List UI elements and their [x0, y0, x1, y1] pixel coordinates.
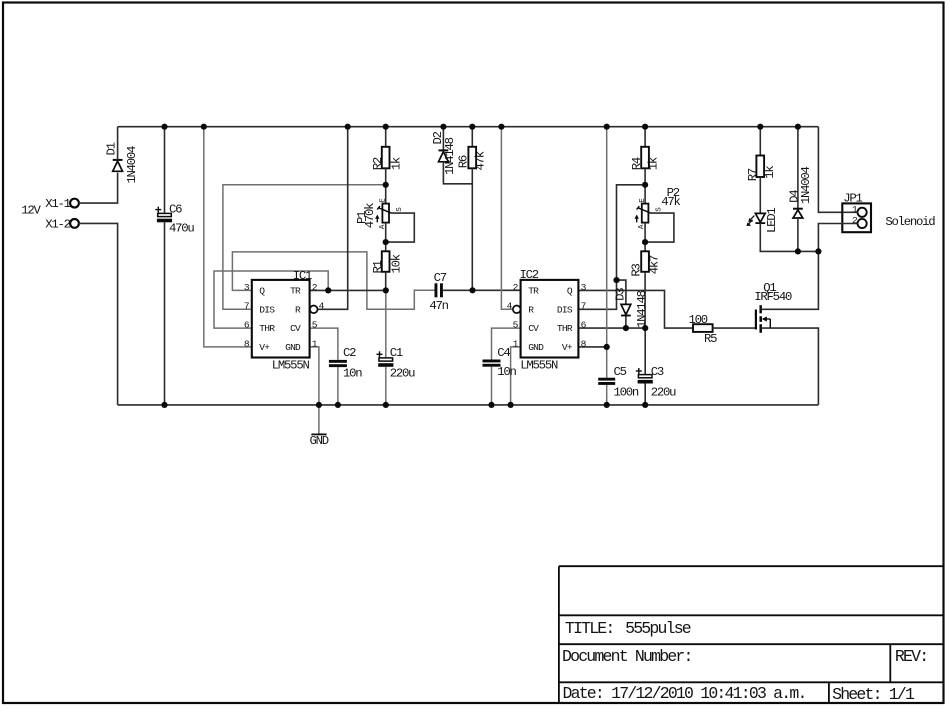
wire IC2 V+ pin8 stub [578, 346, 606, 348]
junction JP1-2/drain node [815, 248, 821, 254]
wire X1-2 to GND rail [79, 223, 118, 405]
junction bottom rail x=319 [316, 402, 322, 408]
diode D1 1N4004 [113, 159, 123, 161]
svg-text:Date: 17/12/2010 10:41:03 a.m.: Date: 17/12/2010 10:41:03 a.m. [563, 684, 806, 703]
wire R6 to TR2 node [471, 168, 473, 290]
junction THR loop/TR [325, 287, 331, 293]
wire IC1 TR pin2 to R1/C1 node [310, 289, 386, 291]
resistor R3 4k7 body [641, 251, 649, 271]
wire Q1 drain to solenoid node [761, 251, 819, 309]
junction D4/drain node [795, 248, 801, 254]
svg-text:R4: R4 [630, 157, 644, 170]
capacitor C1 220u plates [379, 358, 393, 361]
svg-text:V+: V+ [562, 342, 573, 353]
junction P1 wiper [383, 239, 389, 245]
svg-text:470u: 470u [169, 221, 194, 235]
svg-text:47k: 47k [661, 195, 680, 209]
svg-text:IC1: IC1 [293, 269, 312, 283]
wire C5 to GND rail [606, 385, 608, 405]
wire IC2 THR pin6 to R3/C3 node [578, 327, 645, 329]
svg-text:1k: 1k [389, 157, 403, 170]
IC1 pin 4 inversion bubble [310, 306, 318, 314]
op-amp/timer IC2 LM555N box [521, 280, 579, 358]
wire GND stub [318, 405, 320, 434]
junction bottom rail x=645 [642, 402, 648, 408]
wire JP1 pin 2 to drain node [818, 224, 857, 252]
svg-text:R2: R2 [371, 157, 385, 170]
wire IC1 THR pin6 loop to TR [214, 271, 328, 328]
junction top rail x=443 [440, 124, 446, 130]
Q1 source dash [759, 324, 762, 333]
JP1 pin 2 circle [858, 219, 867, 228]
capacitor C6 470u plates [158, 213, 172, 216]
wire P2 wiper loop [645, 213, 674, 242]
svg-text:Sheet: 1/1: Sheet: 1/1 [832, 685, 915, 704]
svg-text:Document Number:: Document Number: [562, 647, 692, 666]
capacitor C5 100n plates [598, 378, 615, 381]
junction bottom rail x=511 [508, 402, 514, 408]
wire V+ rail to IC1 pin 8 [204, 127, 252, 347]
svg-text:C5: C5 [614, 365, 627, 379]
wire rail to JP1 pin 1 [818, 127, 857, 213]
wire R3 to THR node [644, 272, 646, 328]
wire C2 to GND rail [337, 367, 339, 405]
wire Q1 source to GND rail [761, 328, 819, 405]
junction top rail x=472 [469, 124, 475, 130]
junction top rail x=760 [757, 124, 763, 130]
svg-text:1N4004: 1N4004 [799, 166, 813, 204]
svg-text:C7: C7 [434, 271, 447, 285]
svg-text:TITLE:: TITLE: [565, 619, 614, 638]
svg-text:THR: THR [259, 323, 275, 334]
wire rail to D2 [442, 127, 444, 151]
wire R1 to TR node [385, 272, 387, 291]
junction top rail x=386 [383, 124, 389, 130]
svg-text:Solenoid: Solenoid [885, 215, 935, 229]
diode D3 1N4148 [621, 304, 631, 314]
capacitor C7 plates [435, 283, 438, 297]
diode LED1 [755, 213, 765, 222]
junction top rail x=204 [201, 124, 207, 130]
svg-text:LM555N: LM555N [272, 358, 310, 372]
svg-text:100: 100 [689, 313, 708, 327]
op-amp/timer IC1 LM555N box [252, 280, 310, 358]
svg-text:R6: R6 [457, 155, 471, 168]
wire bottom GND rail [118, 404, 819, 406]
svg-text:1k: 1k [763, 166, 777, 179]
capacitor C2 10n plates [329, 360, 347, 363]
svg-text:C1: C1 [390, 346, 403, 360]
connector JP1 box [842, 203, 871, 232]
svg-text:47k: 47k [474, 151, 488, 170]
diode D2 1N4148 [439, 149, 449, 151]
wire IC2 CV pin5 to C4 [492, 328, 521, 359]
svg-text:CV: CV [290, 323, 301, 334]
svg-text:10k: 10k [389, 254, 403, 273]
junction D3/THR2 [623, 325, 629, 331]
wire rail to R4 [644, 127, 646, 147]
junction bottom rail x=492 [488, 402, 494, 408]
svg-text:C2: C2 [343, 346, 356, 360]
svg-text:CV: CV [528, 323, 539, 334]
ground bar [311, 433, 326, 435]
svg-text:X1-1: X1-1 [45, 197, 70, 211]
svg-text:THR: THR [557, 323, 573, 334]
svg-text:1N4148: 1N4148 [635, 290, 649, 328]
svg-text:TR: TR [528, 286, 539, 297]
diode D4 1N4004 [793, 208, 803, 210]
svg-text:100n: 100n [614, 385, 639, 399]
wire P2 to R3 [644, 223, 646, 252]
plus mark C6 plus [155, 209, 161, 211]
svg-text:X1-2: X1-2 [45, 218, 70, 232]
svg-text:4k7: 4k7 [648, 255, 662, 274]
capacitor C4 10n plates [483, 360, 501, 363]
svg-text:LED1: LED1 [765, 208, 779, 233]
Q1 bulk dash [759, 316, 762, 322]
resistor R5 100 body [693, 324, 713, 332]
connector X1-2 [70, 219, 79, 228]
resistor R6 47k body [468, 147, 476, 169]
resistor R1 10k body [382, 251, 390, 271]
junction R3/C3/THR2 [642, 325, 648, 331]
wire rail to R7 [759, 127, 761, 156]
resistor R7 1k body [756, 156, 764, 178]
junction R6/C7/TR2 [469, 287, 475, 293]
svg-text:R7: R7 [746, 168, 760, 181]
wire IC2 DIS pin7 to R4/P2 node [578, 185, 645, 309]
title block frame [558, 566, 560, 703]
wire IC1 CV pin5 to C2 [310, 328, 338, 360]
junction top rail x=798 [795, 124, 801, 130]
wire D3 cathode to THR node [625, 316, 627, 329]
capacitor C3 220u plates [638, 375, 652, 378]
wire R7 to LED1 [759, 177, 761, 213]
junction DIS2/R4/P2 [642, 182, 648, 188]
junction bottom rail x=386 [383, 402, 389, 408]
connector X1-1 [70, 199, 79, 208]
wire TR node to C1 [385, 290, 387, 358]
junction P2 wiper [642, 239, 648, 245]
wire IC2 Q pin3 to R5 [578, 290, 693, 328]
wire rail to D4 cathode [797, 127, 799, 209]
svg-text:7: 7 [244, 301, 249, 312]
wire rail to R2 [385, 127, 387, 147]
wire IC1 DIS pin7 to R2/P1 node [223, 185, 386, 309]
wire R2 to P1 [385, 168, 387, 203]
wire C4 to GND rail [491, 367, 493, 405]
svg-text:DIS: DIS [557, 304, 573, 315]
junction bottom rail x=607 [604, 402, 610, 408]
junction top rail x=348 [345, 124, 351, 130]
wire rail to R6 [471, 127, 473, 147]
wire top +12V rail [118, 126, 819, 128]
wire LED1 to drain node [760, 224, 818, 252]
svg-text:DIS: DIS [259, 304, 275, 315]
wire IC2 GND pin1 to rail [511, 347, 521, 405]
wire C7 to IC2 TR pin2 [443, 289, 521, 291]
wire D1 cathode to rail [117, 127, 119, 160]
wire IC1 GND pin1 to rail [310, 347, 319, 405]
svg-text:REV:: REV: [895, 647, 927, 666]
junction R1/C1/TR [383, 287, 389, 293]
wire P1 wiper loop [386, 213, 415, 242]
JP1 pin 1 circle [858, 208, 867, 217]
svg-text:GND: GND [310, 434, 329, 448]
junction top rail x=501 [498, 124, 504, 130]
resistor R4 1k body [641, 147, 649, 169]
junction top rail x=645 [642, 124, 648, 130]
LED1 emission arrows [750, 216, 755, 221]
svg-text:LM555N: LM555N [520, 358, 558, 372]
svg-text:470k: 470k [363, 203, 377, 228]
junction bottom rail x=164 [161, 402, 167, 408]
junction V+2/C5 [604, 344, 610, 350]
wire C6 to GND rail [164, 222, 166, 405]
junction bottom rail x=338 [335, 402, 341, 408]
wire IC1 Q pin3 loop to C7 [232, 252, 435, 309]
svg-text:R3: R3 [630, 263, 644, 276]
svg-text:R1: R1 [371, 260, 385, 273]
svg-text:R5: R5 [704, 332, 717, 346]
svg-text:IC2: IC2 [520, 268, 539, 282]
wire rail to C5 through V+ node [606, 127, 608, 378]
potentiometer P1 470k body [382, 204, 389, 223]
junction top rail x=164 [161, 124, 167, 130]
junction DIS/R2/P1 [383, 182, 389, 188]
Q1 bulk arrow [766, 318, 771, 320]
resistor R2 1k body [382, 147, 390, 169]
IC2 pin 4 inversion bubble [513, 306, 521, 314]
svg-text:D1: D1 [104, 142, 118, 155]
wire D4 anode to drain node [797, 218, 799, 251]
wire P1 to R1 [385, 223, 387, 252]
wire R4 to P2 [644, 168, 646, 203]
wire R5 to Q1 gate [713, 327, 756, 329]
svg-text:D3: D3 [614, 288, 628, 301]
wire C1 to GND rail [385, 367, 387, 405]
wire IC1 R pin4 to rail [318, 127, 348, 310]
svg-text:220u: 220u [651, 385, 676, 399]
svg-text:TR: TR [290, 286, 301, 297]
svg-text:C3: C3 [651, 365, 664, 379]
wire IC2 R pin4 to rail [501, 127, 513, 310]
wire THR node to C3 [644, 328, 646, 375]
wire D2 anode to R6 bottom [443, 162, 472, 184]
JP1 pin1 lead [842, 211, 857, 213]
svg-text:47n: 47n [429, 299, 448, 313]
svg-text:V+: V+ [259, 342, 270, 353]
svg-text:10n: 10n [497, 365, 516, 379]
svg-text:GND: GND [285, 342, 301, 353]
Q1 gate bar [755, 310, 757, 330]
wire X1-1 to D1 anode [79, 173, 118, 204]
wire rail to C6 [164, 127, 166, 214]
svg-text:1N4004: 1N4004 [125, 146, 139, 184]
svg-text:IRF540: IRF540 [754, 290, 792, 304]
junction top rail x=607 [604, 124, 610, 130]
svg-text:C6: C6 [169, 202, 182, 216]
svg-text:1k: 1k [646, 157, 660, 170]
wire DIS branch to D3 [617, 280, 626, 304]
junction DIS2/D3 [613, 277, 619, 283]
wire C3 to GND rail [644, 384, 646, 405]
svg-text:1N4148: 1N4148 [443, 137, 457, 175]
plus mark C3 plus [636, 370, 642, 372]
svg-text:7: 7 [581, 301, 586, 312]
svg-text:555pulse: 555pulse [625, 619, 691, 638]
Q1 drain dash [759, 305, 762, 313]
potentiometer P2 47k body [642, 204, 649, 223]
svg-text:C4: C4 [497, 346, 510, 360]
svg-text:12V: 12V [21, 204, 41, 218]
svg-text:GND: GND [528, 342, 544, 353]
svg-text:10n: 10n [343, 367, 362, 381]
plus mark C1 plus [377, 353, 383, 355]
svg-text:220u: 220u [390, 367, 415, 381]
